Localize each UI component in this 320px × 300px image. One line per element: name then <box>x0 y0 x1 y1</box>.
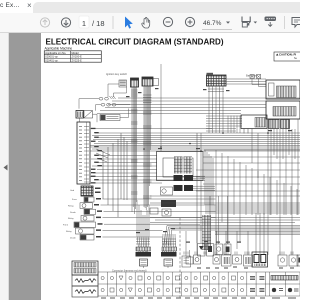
harness bundle from CN1 <box>131 87 138 214</box>
page down button <box>61 18 70 27</box>
legend symbols row 2 <box>101 288 299 292</box>
key switch SW1 <box>119 80 127 87</box>
sensor S4 <box>222 255 232 266</box>
sensor S3 <box>213 255 220 264</box>
zoom in button <box>185 17 194 26</box>
wire fuse to battery <box>79 99 99 109</box>
relay R5 <box>161 187 173 195</box>
long wire riser <box>160 64 162 151</box>
frame boundary dashed <box>179 218 181 298</box>
wire connectors to monitor <box>252 79 266 87</box>
sensor S7 <box>278 255 287 266</box>
relay R1 <box>84 197 101 202</box>
browser tab bar <box>0 0 300 13</box>
junction crosshatch area <box>206 116 242 134</box>
relay R3 <box>81 216 101 222</box>
relay box RB1 <box>241 115 267 129</box>
wires from fuse box down <box>208 86 224 133</box>
terminal strip TB1 <box>77 122 90 184</box>
svg-text:ZX225-E: ZX225-E <box>72 59 83 63</box>
comment icon (cut off) <box>292 18 302 28</box>
battery B1 <box>76 111 84 119</box>
junction dots <box>143 132 269 152</box>
connector CN3 <box>269 120 280 129</box>
applicable machine table <box>44 47 101 63</box>
terminal strip pin ticks <box>84 127 89 183</box>
svg-text:Applicable s/n No.: Applicable s/n No. <box>45 51 66 55</box>
wire fusible link to connector <box>120 109 129 118</box>
wire battery to terminal box <box>80 114 98 122</box>
terminal strip inner marks <box>79 126 82 181</box>
legend connector box <box>72 261 98 275</box>
harness funnel bundle 2 <box>162 234 177 252</box>
svg-text:1: 1 <box>82 19 86 28</box>
bottom component P5 <box>186 250 193 264</box>
svg-text:Ignition key switch: Ignition key switch <box>106 72 128 76</box>
sidebar toggle arrow <box>3 164 8 171</box>
diode D2 <box>80 235 101 240</box>
svg-text:Model: Model <box>72 51 79 55</box>
sensor S9 cut <box>297 255 303 266</box>
fit page icon <box>242 17 251 28</box>
wires from relay stack <box>101 199 216 237</box>
harness bundle vertical center <box>174 157 192 174</box>
connector CN8 dark <box>161 200 176 207</box>
wire tags on terminal strip <box>91 128 102 184</box>
nested corner wires <box>150 150 300 244</box>
fuse row F2 <box>101 103 116 106</box>
bottom component P3 <box>215 244 223 255</box>
sensor S8 <box>289 255 298 266</box>
harness bundle from CN2 <box>143 86 152 210</box>
bottom component P1 <box>198 244 206 257</box>
wire fuse row to right <box>96 105 131 111</box>
sensor S5 <box>233 255 242 264</box>
harness funnel bundle 1 <box>136 200 151 252</box>
starter M1 <box>84 111 93 119</box>
thick harness band lower <box>164 226 301 246</box>
gauge cluster GA1 <box>252 252 268 267</box>
legend row 3 <box>72 286 98 297</box>
wire risers center-left <box>103 133 127 217</box>
connector pin ticks above sensors <box>184 252 293 255</box>
connector row CN6 <box>174 175 194 181</box>
svg-text:Diode: Diode <box>70 212 76 214</box>
wire drops to bottom components <box>201 133 228 244</box>
svg-text:ZX200-E: ZX200-E <box>72 55 83 59</box>
svg-text:Diode: Diode <box>70 238 76 240</box>
svg-text:ELECTRICAL CIRCUIT DIAGRAM (ST: ELECTRICAL CIRCUIT DIAGRAM (STANDARD) <box>46 37 224 46</box>
collapsed sidebar strip <box>0 33 9 300</box>
bus band from terminal strip <box>90 129 300 184</box>
misc tag labels <box>126 88 292 243</box>
svg-text:Applicable Machine: Applicable Machine <box>45 47 73 51</box>
toolbar collapse icon <box>265 17 277 27</box>
page up button (disabled) <box>40 18 49 27</box>
component ref labels <box>197 267 294 269</box>
legend caption dashes <box>101 298 296 299</box>
bus band upper wires <box>97 98 300 114</box>
connector CN4 <box>281 120 290 129</box>
connector CN1 <box>131 78 139 87</box>
connector CN13 <box>257 75 261 79</box>
wires from connectors CN6 CN7 <box>193 176 215 190</box>
sensor S2 <box>194 255 201 264</box>
svg-text:F.link: F.link <box>63 225 69 227</box>
thick harness path right <box>205 150 300 213</box>
bottom component P2 <box>207 244 214 257</box>
fuse box FB1 <box>207 73 227 86</box>
connector row CN7 <box>174 185 194 191</box>
wire drops to sensor row <box>186 231 248 256</box>
svg-text:Gnd: Gnd <box>70 190 75 192</box>
wire fuse box to monitor <box>226 79 266 84</box>
selection tool (active, blue cursor) <box>125 17 133 29</box>
fuse F1 <box>99 96 115 100</box>
connector CN12 <box>250 75 254 79</box>
connector CN11 dark bar <box>161 252 177 257</box>
svg-text:/ 18: / 18 <box>92 19 105 28</box>
svg-text:020001-up: 020001-up <box>45 55 58 59</box>
legend row 2 <box>72 275 98 286</box>
caution box <box>274 52 301 61</box>
battery B2 <box>164 259 173 268</box>
relay box drop wires <box>197 129 252 244</box>
center cab block <box>157 152 204 181</box>
legend grid <box>98 272 300 296</box>
relay R2 <box>80 203 99 209</box>
connector CN5 dark block <box>81 186 101 196</box>
svg-text:Fuse: Fuse <box>72 199 78 201</box>
mid gap wires <box>150 218 300 223</box>
pdf toolbar <box>0 13 300 33</box>
monitor unit U1 <box>266 80 300 99</box>
zoom out button <box>163 17 172 26</box>
hand tool <box>142 17 150 28</box>
schematic drawing <box>41 33 300 300</box>
relay R4 <box>76 228 102 234</box>
page number input <box>79 16 105 28</box>
connector CN10 dark bar <box>136 252 152 257</box>
separator <box>284 16 286 29</box>
svg-text:Relay: Relay <box>68 206 74 208</box>
diode D1 <box>84 209 102 214</box>
horn relay box HB1 <box>140 259 148 268</box>
separator <box>112 16 114 29</box>
component labels left <box>63 190 78 240</box>
svg-text:46.7%: 46.7% <box>203 20 222 27</box>
legend symbols row 1 <box>101 276 298 281</box>
svg-text:020401-up: 020401-up <box>45 59 58 63</box>
fusible link box FL1 <box>100 115 120 121</box>
wire key switch to fuse row <box>108 84 127 97</box>
sensor S6 <box>244 255 253 266</box>
white pdf page <box>41 33 300 300</box>
wires from fuse box right blocks down <box>252 119 298 255</box>
fusible link FL2 <box>74 222 103 228</box>
diagonal jog wires <box>96 149 110 162</box>
small box row <box>150 208 171 216</box>
svg-text:Relay: Relay <box>68 218 74 220</box>
control unit U2 <box>266 101 300 119</box>
sensor row S1 <box>182 256 191 267</box>
svg-text:Relay: Relay <box>66 231 72 233</box>
connector CN2 <box>142 77 159 86</box>
bottom component P4 <box>224 244 231 255</box>
riser bundle center <box>202 215 211 250</box>
